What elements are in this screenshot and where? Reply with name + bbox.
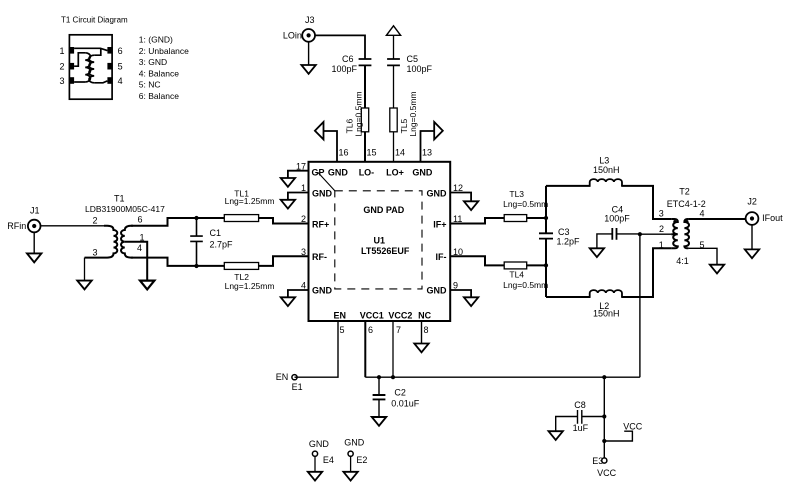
T1 diagram internal wire pin2 to left coil (74, 53, 85, 66)
wire C5 to TL5 (393, 65, 395, 108)
wire T2 pin 4 to J2 (688, 218, 745, 220)
transformer T2 right winding (684, 219, 689, 248)
connector J1 (28, 220, 41, 233)
svg-text:TL3: TL3 (509, 189, 524, 199)
svg-text:Lng=0.5mm: Lng=0.5mm (354, 91, 364, 136)
svg-text:J3: J3 (305, 15, 315, 25)
wire T2 pin 5 to ground (688, 248, 717, 264)
wire J3 to ground (308, 42, 310, 65)
junction node TL3 (544, 216, 548, 220)
svg-text:17: 17 (296, 161, 306, 171)
transformer T1 primary winding (85, 226, 118, 258)
svg-text:IFout: IFout (762, 213, 783, 223)
svg-text:6: 6 (118, 46, 123, 56)
wire C8 to ground (556, 417, 578, 432)
svg-text:GND: GND (344, 438, 365, 448)
svg-text:E2: E2 (356, 455, 367, 465)
T1 pin 3 wire to ground (84, 258, 86, 281)
svg-text:2: 2 (92, 216, 97, 226)
svg-text:1: (GND): 1: (GND) (139, 35, 173, 45)
svg-text:T1: T1 (114, 194, 125, 204)
U1 pin 15 wire (364, 132, 366, 162)
svg-text:GND: GND (309, 439, 330, 449)
svg-text:E4: E4 (323, 455, 334, 465)
svg-text:4: Balance: 4: Balance (139, 68, 179, 78)
svg-text:13: 13 (422, 147, 432, 157)
svg-text:6: 6 (368, 325, 373, 335)
svg-text:J1: J1 (30, 206, 40, 216)
svg-text:3: 3 (59, 76, 64, 86)
svg-text:T2: T2 (679, 186, 690, 196)
junction node C2 (377, 375, 381, 379)
svg-text:6: Balance: 6: Balance (139, 91, 179, 101)
T2 polarity dot left (673, 220, 676, 223)
svg-text:NC: NC (418, 310, 431, 320)
wire TL4 to node (527, 264, 546, 266)
svg-text:1: 1 (59, 46, 64, 56)
capacitor C1 (190, 218, 203, 266)
svg-text:RFin: RFin (7, 221, 26, 231)
svg-text:5: NC: 5: NC (139, 80, 161, 90)
svg-text:Lng=0.5mm: Lng=0.5mm (503, 199, 548, 209)
T1 diagram right winding coil (89, 55, 94, 83)
svg-text:LT5526EUF: LT5526EUF (361, 246, 410, 256)
svg-text:4: 4 (301, 281, 306, 291)
svg-text:9: 9 (453, 281, 458, 291)
T1 diagram box (69, 35, 112, 99)
wire C4 to T2 center tap (617, 233, 640, 235)
junction node C1 top (194, 216, 198, 220)
svg-text:14: 14 (395, 147, 405, 157)
T1 center tap pin 1 wire (125, 242, 147, 281)
arrow at pin 13 (434, 122, 443, 139)
U1 pin 17 stub (288, 171, 309, 178)
svg-text:2: 2 (301, 214, 306, 224)
ground below T1 pin 3 (77, 281, 91, 290)
svg-text:100pF: 100pF (604, 214, 630, 224)
svg-text:1: 1 (301, 183, 306, 193)
svg-text:C5: C5 (407, 54, 419, 64)
ground at pin 4 (281, 297, 295, 306)
transmission line TL2 (224, 263, 258, 270)
svg-text:IF-: IF- (436, 252, 447, 262)
svg-text:GND: GND (427, 188, 448, 198)
T1 diagram pad pin5 (107, 63, 112, 70)
svg-text:GND: GND (412, 167, 433, 177)
svg-text:0.01uF: 0.01uF (391, 398, 420, 408)
svg-text:7: 7 (396, 325, 401, 335)
ground below J3 (301, 65, 315, 74)
svg-text:U1: U1 (374, 236, 386, 246)
junction node TL4 (544, 263, 548, 267)
VCC testpoint E3 (602, 458, 607, 463)
ground below C2 (372, 417, 386, 426)
svg-text:RF+: RF+ (312, 219, 329, 229)
wire T1 pin4 to RF- rail (131, 258, 224, 266)
U1 pin 5 wire (295, 321, 339, 377)
svg-text:12: 12 (453, 183, 463, 193)
svg-text:1uF: 1uF (573, 423, 589, 433)
svg-text:GND: GND (328, 167, 349, 177)
wire E4 to ground (314, 456, 316, 472)
ground below C4 (590, 248, 604, 257)
wire TL3 to node (527, 217, 546, 219)
svg-text:4: 4 (118, 76, 123, 86)
top rail to L3 (546, 185, 591, 187)
svg-text:15: 15 (367, 147, 377, 157)
svg-text:3: GND: 3: GND (139, 57, 167, 67)
junction node pin7 (391, 375, 395, 379)
svg-text:Lng=1.25mm: Lng=1.25mm (225, 196, 275, 206)
svg-text:LO+: LO+ (386, 167, 404, 177)
transformer T1 secondary winding (121, 226, 133, 258)
svg-text:E3: E3 (592, 456, 603, 466)
svg-text:GND: GND (312, 188, 333, 198)
svg-text:2: 2 (59, 61, 64, 71)
vertical wire tap to VCC rail (639, 234, 641, 377)
wire T1 pin6 to RF+ rail (131, 218, 224, 226)
ground at pin 8 (414, 344, 428, 353)
svg-text:5: 5 (118, 61, 123, 71)
transmission line TL4 (504, 262, 527, 269)
svg-text:3: 3 (659, 209, 664, 219)
wire U1 pin 10 to TL4 (450, 256, 504, 265)
wire T2 center tap pin 2 (640, 233, 671, 235)
svg-text:GP: GP (312, 167, 325, 177)
transmission line TL3 (504, 215, 527, 222)
svg-text:5: 5 (340, 325, 345, 335)
svg-text:VCC: VCC (597, 468, 617, 478)
ground below E2 (343, 472, 357, 481)
ground at pin 17 (281, 178, 295, 187)
U1 pin 14 wire (393, 132, 395, 162)
ground at pin 12 (464, 201, 478, 210)
T1 diagram pad pin1 (69, 47, 74, 54)
capacitor C5 (387, 59, 400, 65)
wire U1 pin 11 to TL3 (450, 218, 504, 224)
junction node T2 tap (638, 232, 642, 236)
svg-text:J2: J2 (747, 197, 757, 207)
svg-text:E1: E1 (292, 382, 303, 392)
arrow at pin 16 (315, 122, 324, 139)
svg-text:C8: C8 (574, 400, 586, 410)
svg-text:VCC2: VCC2 (388, 310, 412, 320)
transformer T2 left winding (671, 219, 678, 248)
ground at pin 1 (281, 200, 295, 209)
transmission line TL6 (361, 108, 368, 132)
capacitor C2 (378, 377, 380, 417)
U1 pin 7 wire (392, 321, 394, 377)
T1 diagram pad pin6 (107, 47, 112, 54)
wire C4 to ground (597, 234, 612, 248)
svg-text:150nH: 150nH (593, 165, 620, 175)
VCC rail (365, 376, 640, 378)
svg-text:Lng=0.5mm: Lng=0.5mm (503, 280, 548, 290)
svg-text:4: 4 (137, 243, 142, 253)
connector J3 (302, 29, 315, 42)
svg-text:16: 16 (339, 147, 349, 157)
svg-text:3: 3 (301, 247, 306, 257)
T1 diagram pad pin4 (107, 77, 112, 84)
svg-text:2.7pF: 2.7pF (210, 239, 234, 249)
ground below T1 pin 1 (140, 281, 154, 290)
svg-text:GND: GND (312, 286, 333, 296)
ground below T2 pin 5 (710, 265, 724, 274)
junction node C8 (602, 414, 606, 418)
ground below J2 (745, 249, 759, 258)
T1 diagram left winding coil (85, 53, 90, 82)
U1 GP diagonal to pad (318, 173, 335, 191)
ground below E4 (308, 472, 322, 481)
T1 diagram pad pin2 (69, 63, 74, 70)
wire TL2 to U1 pin 3 (259, 256, 309, 266)
svg-text:LDB31900M05C-417: LDB31900M05C-417 (85, 204, 165, 214)
junction node VCC tab (602, 439, 606, 443)
ground below C8 (549, 431, 563, 440)
ground at pin 9 (464, 297, 478, 306)
capacitor C8 (578, 410, 605, 424)
svg-text:GND: GND (427, 286, 448, 296)
EN testpoint E1 (292, 375, 297, 380)
wire J2 to ground (751, 225, 753, 250)
inductor L3 (590, 179, 622, 186)
svg-text:RF-: RF- (312, 252, 327, 262)
T1 diagram internal wire right coil top to top rail (94, 48, 101, 55)
wire L3 to T2 pin 3 (621, 186, 671, 219)
svg-text:3: 3 (92, 248, 97, 258)
svg-text:1.2pF: 1.2pF (557, 237, 581, 247)
capacitor C3 (539, 233, 553, 238)
svg-text:C6: C6 (342, 54, 354, 64)
transmission line TL5 (390, 108, 397, 132)
svg-text:T1 Circuit Diagram: T1 Circuit Diagram (61, 15, 128, 24)
svg-text:100pF: 100pF (407, 64, 433, 74)
inductor L2 (590, 290, 622, 297)
svg-text:4: 4 (700, 209, 705, 219)
junction node C1 bottom (194, 264, 198, 268)
svg-text:6: 6 (138, 215, 143, 225)
svg-text:Lng=0.5mm: Lng=0.5mm (408, 91, 418, 136)
svg-text:1: 1 (659, 240, 664, 250)
connector J2 (746, 212, 759, 225)
U1 pin 16 wire to arrow (324, 131, 338, 162)
svg-text:C1: C1 (210, 228, 222, 238)
op chip U1 outline (309, 162, 451, 321)
svg-text:EN: EN (276, 372, 289, 382)
svg-text:VCC: VCC (623, 422, 643, 432)
svg-text:Lng=1.25mm: Lng=1.25mm (225, 281, 275, 291)
capacitor C6 (359, 59, 372, 65)
wire E2 to ground (350, 456, 352, 472)
U1 pin 9 stub (450, 290, 471, 297)
svg-text:TL4: TL4 (509, 270, 524, 280)
svg-text:ETC4-1-2: ETC4-1-2 (667, 199, 706, 209)
bottom rail to L2 (546, 296, 591, 298)
wire L2 to T2 pin 1 (621, 248, 671, 297)
U1 pin 6 wire (364, 321, 366, 377)
wire TL1 to U1 pin 2 (259, 218, 309, 224)
junction node C8 branch (602, 375, 606, 379)
U1 pin 12 stub (450, 193, 471, 202)
U1 pin 8 wire (421, 321, 423, 344)
wire arrow to C5 (393, 35, 395, 59)
T1 diagram pad pin3 (69, 77, 74, 84)
svg-text:150nH: 150nH (593, 309, 620, 319)
svg-text:100pF: 100pF (331, 64, 357, 74)
T1 diagram internal wire top rail pin1 to pin6 (74, 48, 107, 50)
svg-text:4:1: 4:1 (676, 256, 689, 266)
svg-text:IF+: IF+ (433, 219, 446, 229)
T1 diagram internal wire pin3 to left coil bottom (74, 81, 85, 83)
vertical C8 E3 branch (603, 377, 605, 458)
svg-text:2: 2 (659, 224, 664, 234)
capacitor C4 (612, 228, 616, 240)
up arrow above C5 (386, 26, 400, 36)
wire J3 to C6 (315, 35, 365, 59)
ground below J1 (27, 253, 41, 262)
svg-text:EN: EN (334, 310, 347, 320)
U1 pin 4 stub (288, 290, 309, 297)
IF node vertical with C3 (545, 186, 547, 297)
U1 pin 1 stub (288, 193, 309, 200)
svg-text:VCC1: VCC1 (360, 310, 384, 320)
svg-text:8: 8 (424, 325, 429, 335)
U1 GND PAD dashed rect (335, 191, 422, 289)
wire C6 to TL6 (364, 65, 366, 108)
svg-text:LOin: LOin (283, 30, 302, 40)
svg-text:C2: C2 (394, 388, 406, 398)
wire J1 to T1 primary (41, 225, 110, 227)
U1 pin 13 wire to arrow (421, 131, 435, 162)
svg-text:LO-: LO- (359, 167, 375, 177)
transmission line TL1 (224, 215, 258, 222)
T2 polarity dot right (685, 220, 688, 223)
T1 diagram internal wire right coil bottom to pin4 (94, 81, 107, 83)
svg-text:GND PAD: GND PAD (363, 205, 404, 215)
svg-text:2: Unbalance: 2: Unbalance (139, 46, 189, 56)
wire J1 to ground (33, 232, 35, 253)
